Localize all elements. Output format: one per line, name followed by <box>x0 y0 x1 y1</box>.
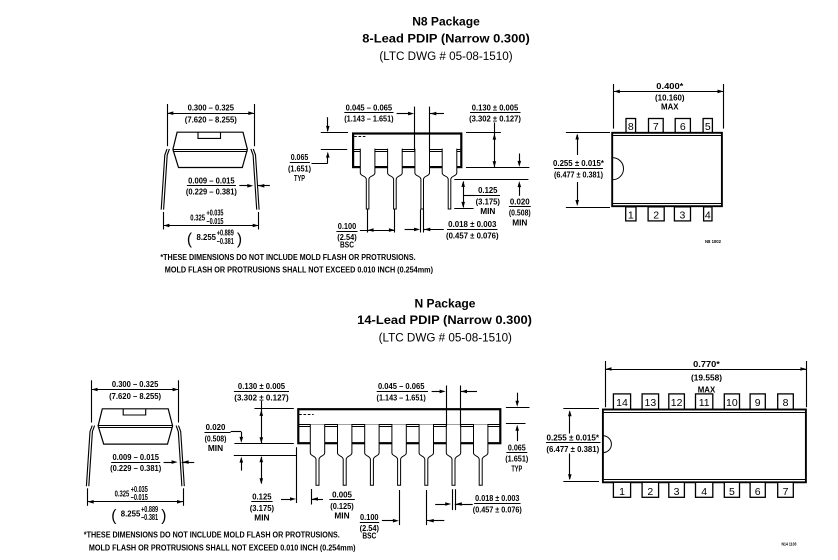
svg-text:MAX: MAX <box>661 102 679 112</box>
svg-text:0.300 – 0.325: 0.300 – 0.325 <box>188 103 235 113</box>
svg-text:0.255 ± 0.015*: 0.255 ± 0.015* <box>547 433 600 443</box>
svg-text:14-Lead PDIP (Narrow 0.300): 14-Lead PDIP (Narrow 0.300) <box>357 313 532 327</box>
svg-text:*THESE DIMENSIONS DO NOT INCLU: *THESE DIMENSIONS DO NOT INCLUDE MOLD FL… <box>160 252 415 262</box>
svg-text:0.125: 0.125 <box>252 492 271 502</box>
svg-text:MIN: MIN <box>208 443 223 453</box>
svg-text:): ) <box>161 507 166 524</box>
svg-text:(1.143 – 1.651): (1.143 – 1.651) <box>377 392 426 402</box>
svg-text:(0.508): (0.508) <box>205 433 227 443</box>
svg-text:BSC: BSC <box>362 531 376 541</box>
svg-text:0.400*: 0.400* <box>656 81 684 91</box>
svg-text:–0.015: –0.015 <box>207 217 224 226</box>
svg-text:3: 3 <box>674 486 680 498</box>
svg-text:0.020: 0.020 <box>206 422 226 432</box>
svg-text:MOLD FLASH OR PROTRUSIONS SHAL: MOLD FLASH OR PROTRUSIONS SHALL NOT EXCE… <box>89 542 356 552</box>
svg-text:(3.302 ± 0.127): (3.302 ± 0.127) <box>469 114 521 124</box>
svg-text:0.100: 0.100 <box>360 512 379 522</box>
svg-text:0.255 ± 0.015*: 0.255 ± 0.015* <box>553 158 604 168</box>
svg-text:(0.229 – 0.381): (0.229 – 0.381) <box>110 463 161 473</box>
svg-text:(0.457 ± 0.076): (0.457 ± 0.076) <box>446 230 499 240</box>
svg-text:8.255: 8.255 <box>121 508 141 518</box>
svg-text:(1.651): (1.651) <box>505 454 528 464</box>
svg-text:14: 14 <box>616 397 628 409</box>
svg-text:(3.175): (3.175) <box>476 196 500 206</box>
svg-text:(19.558): (19.558) <box>691 372 722 382</box>
svg-text:0.065: 0.065 <box>291 152 309 162</box>
svg-text:–0.381: –0.381 <box>141 513 158 522</box>
svg-text:10: 10 <box>726 397 738 409</box>
svg-text:0.100: 0.100 <box>338 221 357 231</box>
svg-text:BSC: BSC <box>340 240 354 250</box>
svg-text:8.255: 8.255 <box>197 232 217 242</box>
svg-text:0.130 ± 0.005: 0.130 ± 0.005 <box>238 381 285 391</box>
svg-text:MAX: MAX <box>698 384 716 394</box>
svg-text:(0.508): (0.508) <box>509 208 531 218</box>
svg-text:0.325: 0.325 <box>190 212 205 222</box>
svg-text:0.325: 0.325 <box>115 489 130 499</box>
svg-text:0.065: 0.065 <box>508 442 526 452</box>
svg-text:3: 3 <box>680 209 686 221</box>
svg-text:0.770*: 0.770* <box>693 359 720 369</box>
svg-text:N8 Package: N8 Package <box>412 15 480 29</box>
svg-text:9: 9 <box>755 397 761 409</box>
svg-text:0.300 – 0.325: 0.300 – 0.325 <box>112 379 159 389</box>
svg-text:8-Lead PDIP (Narrow 0.300): 8-Lead PDIP (Narrow 0.300) <box>362 32 530 46</box>
svg-text:(0.229 – 0.381): (0.229 – 0.381) <box>186 187 237 197</box>
svg-text:0.130 ± 0.005: 0.130 ± 0.005 <box>472 103 519 113</box>
svg-text:MIN: MIN <box>512 217 527 227</box>
svg-text:0.009 – 0.015: 0.009 – 0.015 <box>112 452 159 462</box>
svg-text:–0.015: –0.015 <box>131 493 148 502</box>
svg-text:6: 6 <box>680 121 686 133</box>
svg-text:(7.620 – 8.255): (7.620 – 8.255) <box>185 115 237 125</box>
svg-text:MIN: MIN <box>480 206 495 216</box>
svg-text:–0.381: –0.381 <box>217 237 234 246</box>
svg-text:MIN: MIN <box>254 513 269 523</box>
svg-text:2: 2 <box>653 209 659 221</box>
svg-text:0.045 – 0.065: 0.045 – 0.065 <box>378 381 425 391</box>
svg-text:(3.175): (3.175) <box>250 503 274 513</box>
svg-text:MIN: MIN <box>334 511 349 521</box>
svg-text:8: 8 <box>628 121 634 133</box>
svg-text:0.020: 0.020 <box>510 196 530 206</box>
svg-text:4: 4 <box>701 486 707 498</box>
svg-text:MOLD FLASH OR PROTRUSIONS SHAL: MOLD FLASH OR PROTRUSIONS SHALL NOT EXCE… <box>165 265 433 275</box>
svg-text:8: 8 <box>783 397 789 409</box>
svg-text:0.009 – 0.015: 0.009 – 0.015 <box>188 176 235 186</box>
svg-text:1: 1 <box>619 486 625 498</box>
svg-text:0.005: 0.005 <box>332 490 352 500</box>
svg-text:0.045 – 0.065: 0.045 – 0.065 <box>346 103 393 113</box>
svg-text:N Package: N Package <box>415 296 476 310</box>
svg-text:2: 2 <box>647 486 653 498</box>
svg-text:7: 7 <box>653 121 659 133</box>
svg-text:5: 5 <box>729 486 735 498</box>
svg-text:0.125: 0.125 <box>478 185 497 195</box>
svg-text:N8 1002: N8 1002 <box>705 239 722 244</box>
svg-text:(: ( <box>111 507 117 524</box>
svg-text:5: 5 <box>705 121 711 133</box>
svg-text:4: 4 <box>705 209 711 221</box>
svg-text:13: 13 <box>645 397 657 409</box>
svg-text:N14 1103: N14 1103 <box>782 542 797 547</box>
svg-text:): ) <box>237 231 242 248</box>
svg-text:(LTC DWG # 05-08-1510): (LTC DWG # 05-08-1510) <box>379 331 512 345</box>
svg-text:TYP: TYP <box>294 173 305 183</box>
svg-text:TYP: TYP <box>511 463 522 473</box>
svg-text:(: ( <box>187 231 193 248</box>
svg-text:6: 6 <box>755 486 761 498</box>
svg-text:(0.125): (0.125) <box>330 501 354 511</box>
svg-text:1: 1 <box>628 209 634 221</box>
svg-text:*THESE DIMENSIONS DO NOT INCLU: *THESE DIMENSIONS DO NOT INCLUDE MOLD FL… <box>84 529 340 539</box>
svg-text:(6.477 ± 0.381): (6.477 ± 0.381) <box>554 169 603 179</box>
svg-text:(LTC DWG # 05-08-1510): (LTC DWG # 05-08-1510) <box>379 49 512 63</box>
svg-text:(1.651): (1.651) <box>288 163 311 173</box>
svg-text:7: 7 <box>783 486 789 498</box>
svg-text:12: 12 <box>671 397 683 409</box>
svg-text:(0.457 ± 0.076): (0.457 ± 0.076) <box>473 504 522 514</box>
svg-text:0.018 ± 0.003: 0.018 ± 0.003 <box>448 219 496 229</box>
svg-text:(7.620 – 8.255): (7.620 – 8.255) <box>109 391 161 401</box>
svg-text:(6.477 ± 0.381): (6.477 ± 0.381) <box>546 444 599 454</box>
svg-text:(1.143 – 1.651): (1.143 – 1.651) <box>344 114 393 124</box>
svg-text:0.018 ± 0.003: 0.018 ± 0.003 <box>475 493 519 503</box>
svg-text:11: 11 <box>699 397 710 409</box>
